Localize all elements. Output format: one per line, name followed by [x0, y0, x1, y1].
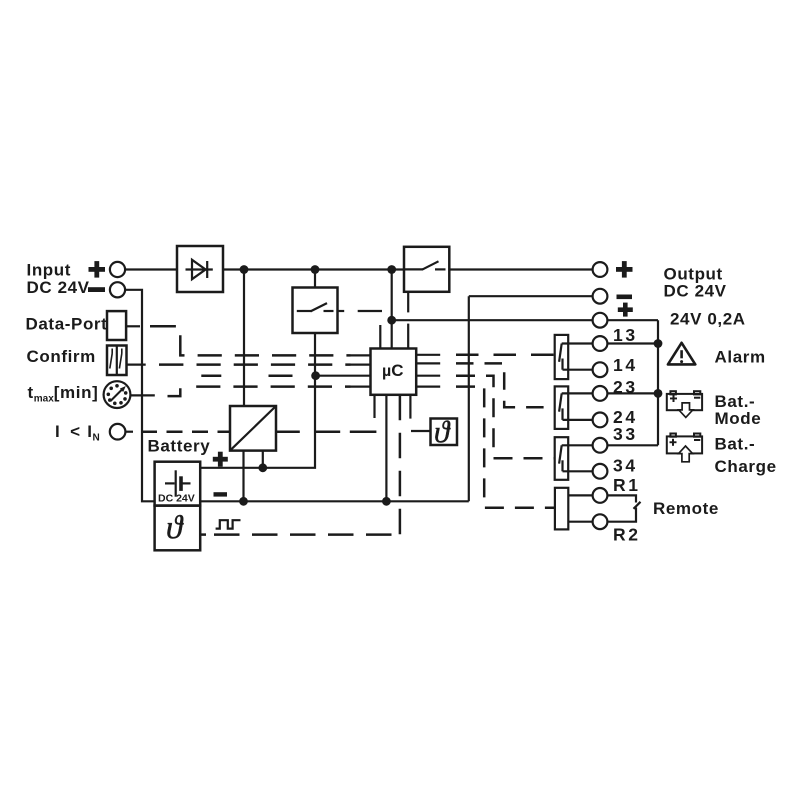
uC bottom stub pin [373, 395, 375, 418]
switch S2 box [404, 247, 449, 292]
wire S2 control drop to uC [407, 292, 409, 349]
battery minus sign [214, 492, 228, 496]
svg-text:Alarm: Alarm [715, 348, 766, 367]
wire 33 pin [562, 444, 593, 446]
terminal input + [110, 262, 125, 277]
svg-text:ϑ: ϑ [166, 510, 184, 546]
uC left pins [351, 355, 371, 386]
wire Data-Port corner drop [180, 335, 184, 355]
terminal aux + [593, 313, 608, 328]
svg-text:tmax[min]: tmax[min] [28, 383, 99, 405]
wire minus rail vertical [468, 296, 470, 501]
relay K2 contact box [555, 386, 569, 429]
input minus sign [88, 287, 105, 292]
wire S1 to battery + rail [200, 333, 315, 468]
node aux output junction [387, 316, 396, 325]
node uC/minus rail junction [382, 497, 391, 506]
wire converter to minus rail [242, 451, 244, 502]
relay K3 contact box [555, 437, 569, 480]
relay K1 blade [559, 344, 562, 370]
uC right pins [416, 355, 440, 387]
switch S1 contact [297, 303, 334, 311]
wire Data-Port dash [150, 325, 176, 328]
svg-text:Charge: Charge [715, 457, 777, 476]
dashed row4 left [196, 385, 350, 388]
dashed pulse line stub [201, 533, 207, 536]
wire Data-Port stub [126, 325, 140, 327]
switch S2 contact [404, 261, 446, 269]
wire S1 node down to switch S1 [314, 270, 316, 288]
node converter/minus rail junction [239, 497, 248, 506]
wire I<IN stub [125, 431, 133, 433]
dashed link converter to theta sensor [276, 431, 376, 434]
svg-text:14: 14 [613, 355, 638, 375]
battery box [155, 462, 201, 506]
wire aux rail vertical [657, 320, 659, 445]
wire uC temp sensor pin [410, 395, 430, 431]
wire R2 pin [568, 521, 592, 523]
terminal R1 [593, 488, 608, 503]
DC/DC converter box [230, 406, 276, 451]
svg-text:µC: µC [382, 361, 404, 380]
wire input- elbow down [125, 290, 155, 502]
input plus sign [89, 261, 106, 278]
svg-text:13: 13 [613, 325, 638, 345]
tmax rotary selector [104, 381, 131, 408]
svg-text:Bat.-: Bat.- [715, 434, 756, 453]
alarm warning triangle [668, 343, 695, 365]
uC box U1 [371, 349, 417, 395]
svg-text:R1: R1 [613, 475, 641, 495]
dashed pulse line to uC [214, 533, 400, 536]
battery plus sign [213, 452, 228, 467]
node rail 23 [654, 389, 663, 398]
battery cell symbol [165, 470, 191, 496]
wire 14 pin [563, 369, 593, 371]
diode D1 box [177, 246, 223, 292]
terminal 24 [593, 413, 608, 428]
dashed row2 left [197, 363, 351, 366]
output plus sign [616, 261, 633, 278]
Confirm key box [107, 346, 127, 376]
diode D1 symbol [186, 260, 213, 279]
terminal 23 [593, 386, 608, 401]
terminal R2 [593, 514, 608, 529]
wire R1 pin [568, 494, 592, 496]
dashed row4 right to remote block [456, 387, 555, 508]
wire aux + output [392, 319, 593, 321]
wire row3 solid uC [316, 375, 371, 377]
svg-text:Remote: Remote [653, 499, 719, 518]
svg-text:24V 0,2A: 24V 0,2A [670, 309, 746, 328]
svg-text:I <IN: I <IN [55, 422, 100, 443]
dashed row1 right to alarm relay [456, 354, 555, 357]
dashed row2 right to bat-mode relay [456, 363, 555, 407]
svg-text:ϑ: ϑ [434, 414, 451, 449]
remote input block [555, 488, 568, 530]
dashed row1 left (Data-Port bus) [198, 354, 351, 357]
node diode junction [240, 265, 249, 274]
wire rail to 33 [607, 444, 658, 446]
node rail 13 [654, 339, 663, 348]
node S1/row3 junction [311, 371, 320, 380]
terminal 13 [593, 336, 608, 351]
terminal 14 [593, 362, 608, 377]
dashed row3 right to bat-charge relay [456, 376, 555, 459]
wire 23 pin [562, 392, 593, 394]
terminal I<IN [110, 424, 126, 440]
battery charge icon [667, 434, 702, 462]
wire I<IN dashed to converter [141, 430, 230, 433]
wire 24 pin [563, 419, 593, 421]
aux plus sign [618, 303, 633, 317]
wire S1 control drop to uC [379, 325, 381, 349]
node uC rail junction [387, 265, 396, 274]
svg-text:Data-Port: Data-Port [26, 314, 108, 333]
svg-text:34: 34 [613, 455, 638, 475]
wire S1 control stub [338, 310, 345, 312]
terminal input - [110, 282, 125, 297]
svg-text:Input: Input [27, 261, 72, 280]
battery theta box [155, 506, 201, 551]
svg-text:DC 24V: DC 24V [27, 278, 90, 297]
relay K3 blade [559, 445, 562, 471]
wire minus rail bottom [200, 500, 469, 502]
wire Confirm stub [127, 364, 146, 366]
wire S2 to output + [449, 268, 592, 270]
svg-text:DC 24V: DC 24V [158, 492, 195, 504]
wire 23 to rail [607, 392, 658, 394]
wire 13 pin [562, 342, 593, 344]
wire output - horizontal [469, 295, 593, 297]
terminal 33 [593, 438, 608, 453]
wire uC to minus rail [385, 395, 387, 502]
temp sensor theta box (right) [431, 419, 458, 446]
dashed row2 left confirm segment [159, 363, 183, 366]
svg-text:33: 33 [613, 424, 638, 444]
node switch S1 junction [311, 265, 320, 274]
wire 34 pin [563, 470, 593, 472]
wire 13 to rail [607, 342, 658, 344]
relay K1 contact box [555, 335, 569, 379]
battery mode icon [667, 391, 702, 417]
Data-Port box [107, 311, 126, 340]
relay K2 blade [559, 393, 562, 420]
wire diode to switch S2 (main + bus) [223, 268, 404, 270]
wire input+ to diode [125, 268, 177, 270]
wire aux+ to right rail [607, 319, 658, 321]
pulse signal symbol [216, 520, 241, 528]
svg-text:R2: R2 [613, 525, 641, 545]
svg-text:DC 24V: DC 24V [664, 281, 727, 300]
terminal 34 [593, 464, 608, 479]
svg-text:Confirm: Confirm [27, 347, 96, 366]
wire uC node down to uC [391, 270, 393, 349]
svg-text:Mode: Mode [715, 409, 762, 428]
wire converter to battery + [262, 451, 264, 468]
wire S1 control dash [358, 310, 382, 312]
output minus sign [617, 295, 633, 300]
dashed row3 left [201, 374, 292, 377]
terminal output - [593, 289, 608, 304]
wire tmax dash and corner up [168, 388, 181, 396]
wire tmax stub [131, 394, 155, 396]
dashed uC drop line [399, 395, 402, 535]
node converter/battery+ junction [258, 463, 267, 472]
svg-text:Battery: Battery [148, 436, 211, 455]
remote bracket wire [607, 495, 640, 521]
terminal output + [593, 262, 608, 277]
wire diode node to DC/DC converter [243, 270, 245, 407]
switch S1 box [293, 288, 338, 334]
